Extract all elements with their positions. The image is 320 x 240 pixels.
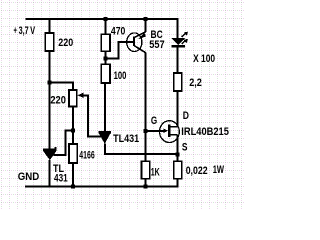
- svg-text:431: 431: [54, 173, 68, 185]
- svg-text:IRL40B215: IRL40B215: [181, 126, 229, 138]
- wire TL431 left ref to junction C: [53, 130, 72, 155]
- resistor 2,2 body: [174, 73, 182, 91]
- transistor Q1 emitter diagonal: [135, 32, 146, 38]
- wire junction A to potentiometer top: [50, 83, 73, 90]
- wire junction B to BC557 base: [106, 42, 133, 58]
- wire BC557 collector down to gate junction, through to 1K top: [145, 53, 147, 162]
- potentiometer wiper arrow: [78, 93, 84, 98]
- TL431 U3 middle triangle: [99, 133, 111, 143]
- junction dot top rail / 470: [104, 17, 108, 21]
- junction dot gate / collector / 1K: [144, 129, 148, 133]
- wire BC557 emitter to rail: [145, 19, 147, 32]
- svg-text:1K: 1K: [151, 166, 160, 178]
- resistor 470 body: [101, 34, 110, 51]
- svg-text:220: 220: [58, 37, 73, 49]
- LED D1 triangle: [171, 38, 185, 45]
- wire 0,022 bottom to ground rail: [177, 179, 179, 187]
- wire potentiometer bottom to junction C to 4166 top: [72, 107, 74, 145]
- wire TL431 left anode down to ground rail: [49, 160, 51, 187]
- transistor Q1 emitter arrow: [138, 33, 146, 40]
- junction dot ground rail / 1K: [144, 184, 148, 188]
- transistor Q1 BC557 circle: [127, 33, 142, 52]
- MOSFET drain link: [170, 126, 178, 128]
- grid dots: [0, 0, 244, 210]
- wire rail to R 220 top: [49, 19, 51, 33]
- top power rail wire: [26, 18, 179, 20]
- svg-text:TL431: TL431: [113, 133, 139, 145]
- TL431 U4 left cathode bar: [43, 148, 56, 150]
- MOSFET gate arrow: [163, 128, 168, 133]
- svg-text:GND: GND: [18, 171, 40, 183]
- wire gate junction to MOSFET gate: [146, 130, 164, 132]
- TL431 U3 middle cathode bar: [99, 131, 111, 133]
- junction dot top rail / BC557 emitter: [144, 17, 148, 21]
- resistor R1 220 body: [45, 33, 54, 51]
- junction dot C pot / 4166 / ref: [71, 128, 75, 132]
- transistor Q1 base bar: [133, 37, 135, 46]
- wire TL431 mid anode to source node S: [105, 144, 178, 155]
- svg-text:X 100: X 100: [193, 53, 215, 65]
- wire LED cathode to 2,2 top: [177, 47, 179, 73]
- svg-text:V: V: [30, 25, 35, 37]
- svg-text:4166: 4166: [79, 150, 94, 162]
- wire 100 bottom to TL431 mid cathode: [104, 83, 106, 131]
- wire 4166 bottom to ground rail: [72, 163, 74, 187]
- wire 2,2 bottom to MOSFET drain: [177, 91, 179, 127]
- wire rail corner down to LED anode: [177, 19, 179, 39]
- svg-text:+: +: [14, 25, 17, 37]
- TL431 U4 left triangle: [43, 151, 56, 160]
- LED D1 cathode bar: [171, 45, 185, 47]
- svg-text:557: 557: [149, 39, 164, 51]
- resistor 4166 body: [69, 144, 77, 163]
- junction dot ground rail / 4166: [71, 184, 75, 188]
- resistor 1K body: [142, 161, 150, 179]
- junction dot A left branch / pot feed: [48, 81, 52, 85]
- TL431 U4 left cathode bar nub: [55, 147, 57, 150]
- wire 1K bottom to ground rail: [145, 179, 147, 187]
- potentiometer 220 body: [69, 90, 77, 107]
- svg-text:100: 100: [114, 70, 127, 82]
- svg-text:G: G: [151, 115, 157, 127]
- MOSFET gate bar: [168, 124, 170, 137]
- LED D1 emission arrow 1: [182, 40, 187, 44]
- svg-text:2,2: 2,2: [189, 77, 202, 89]
- wire 470 bottom to junction B to 100 top: [105, 51, 107, 64]
- wire MOSFET source to S node to 0,022 top: [177, 135, 179, 161]
- svg-text:220: 220: [50, 94, 66, 106]
- LED D1 emission arrow 2: [182, 33, 187, 37]
- MOSFET U2 IRL40B215 circle: [160, 121, 180, 143]
- svg-text:0,022: 0,022: [186, 165, 208, 177]
- svg-text:D: D: [183, 110, 189, 122]
- wire rail to 470: [105, 19, 107, 35]
- svg-text:S: S: [182, 142, 188, 154]
- svg-text:470: 470: [111, 25, 126, 37]
- resistor 0,022 1W body: [174, 161, 182, 179]
- ground rail wire: [25, 186, 179, 188]
- MOSFET source link: [170, 134, 178, 136]
- junction dot B 470 / 100 / base: [104, 57, 108, 61]
- wire potentiometer wiper to TL431 mid ref: [83, 95, 101, 136]
- junction dot S node: [176, 152, 180, 156]
- transistor Q1 collector diagonal: [135, 46, 146, 53]
- resistor 100 body: [101, 64, 110, 83]
- wire R220 bottom to junction A and down to TL431 left cathode: [49, 51, 51, 149]
- svg-text:1W: 1W: [213, 164, 225, 176]
- svg-text:3,7: 3,7: [19, 25, 29, 37]
